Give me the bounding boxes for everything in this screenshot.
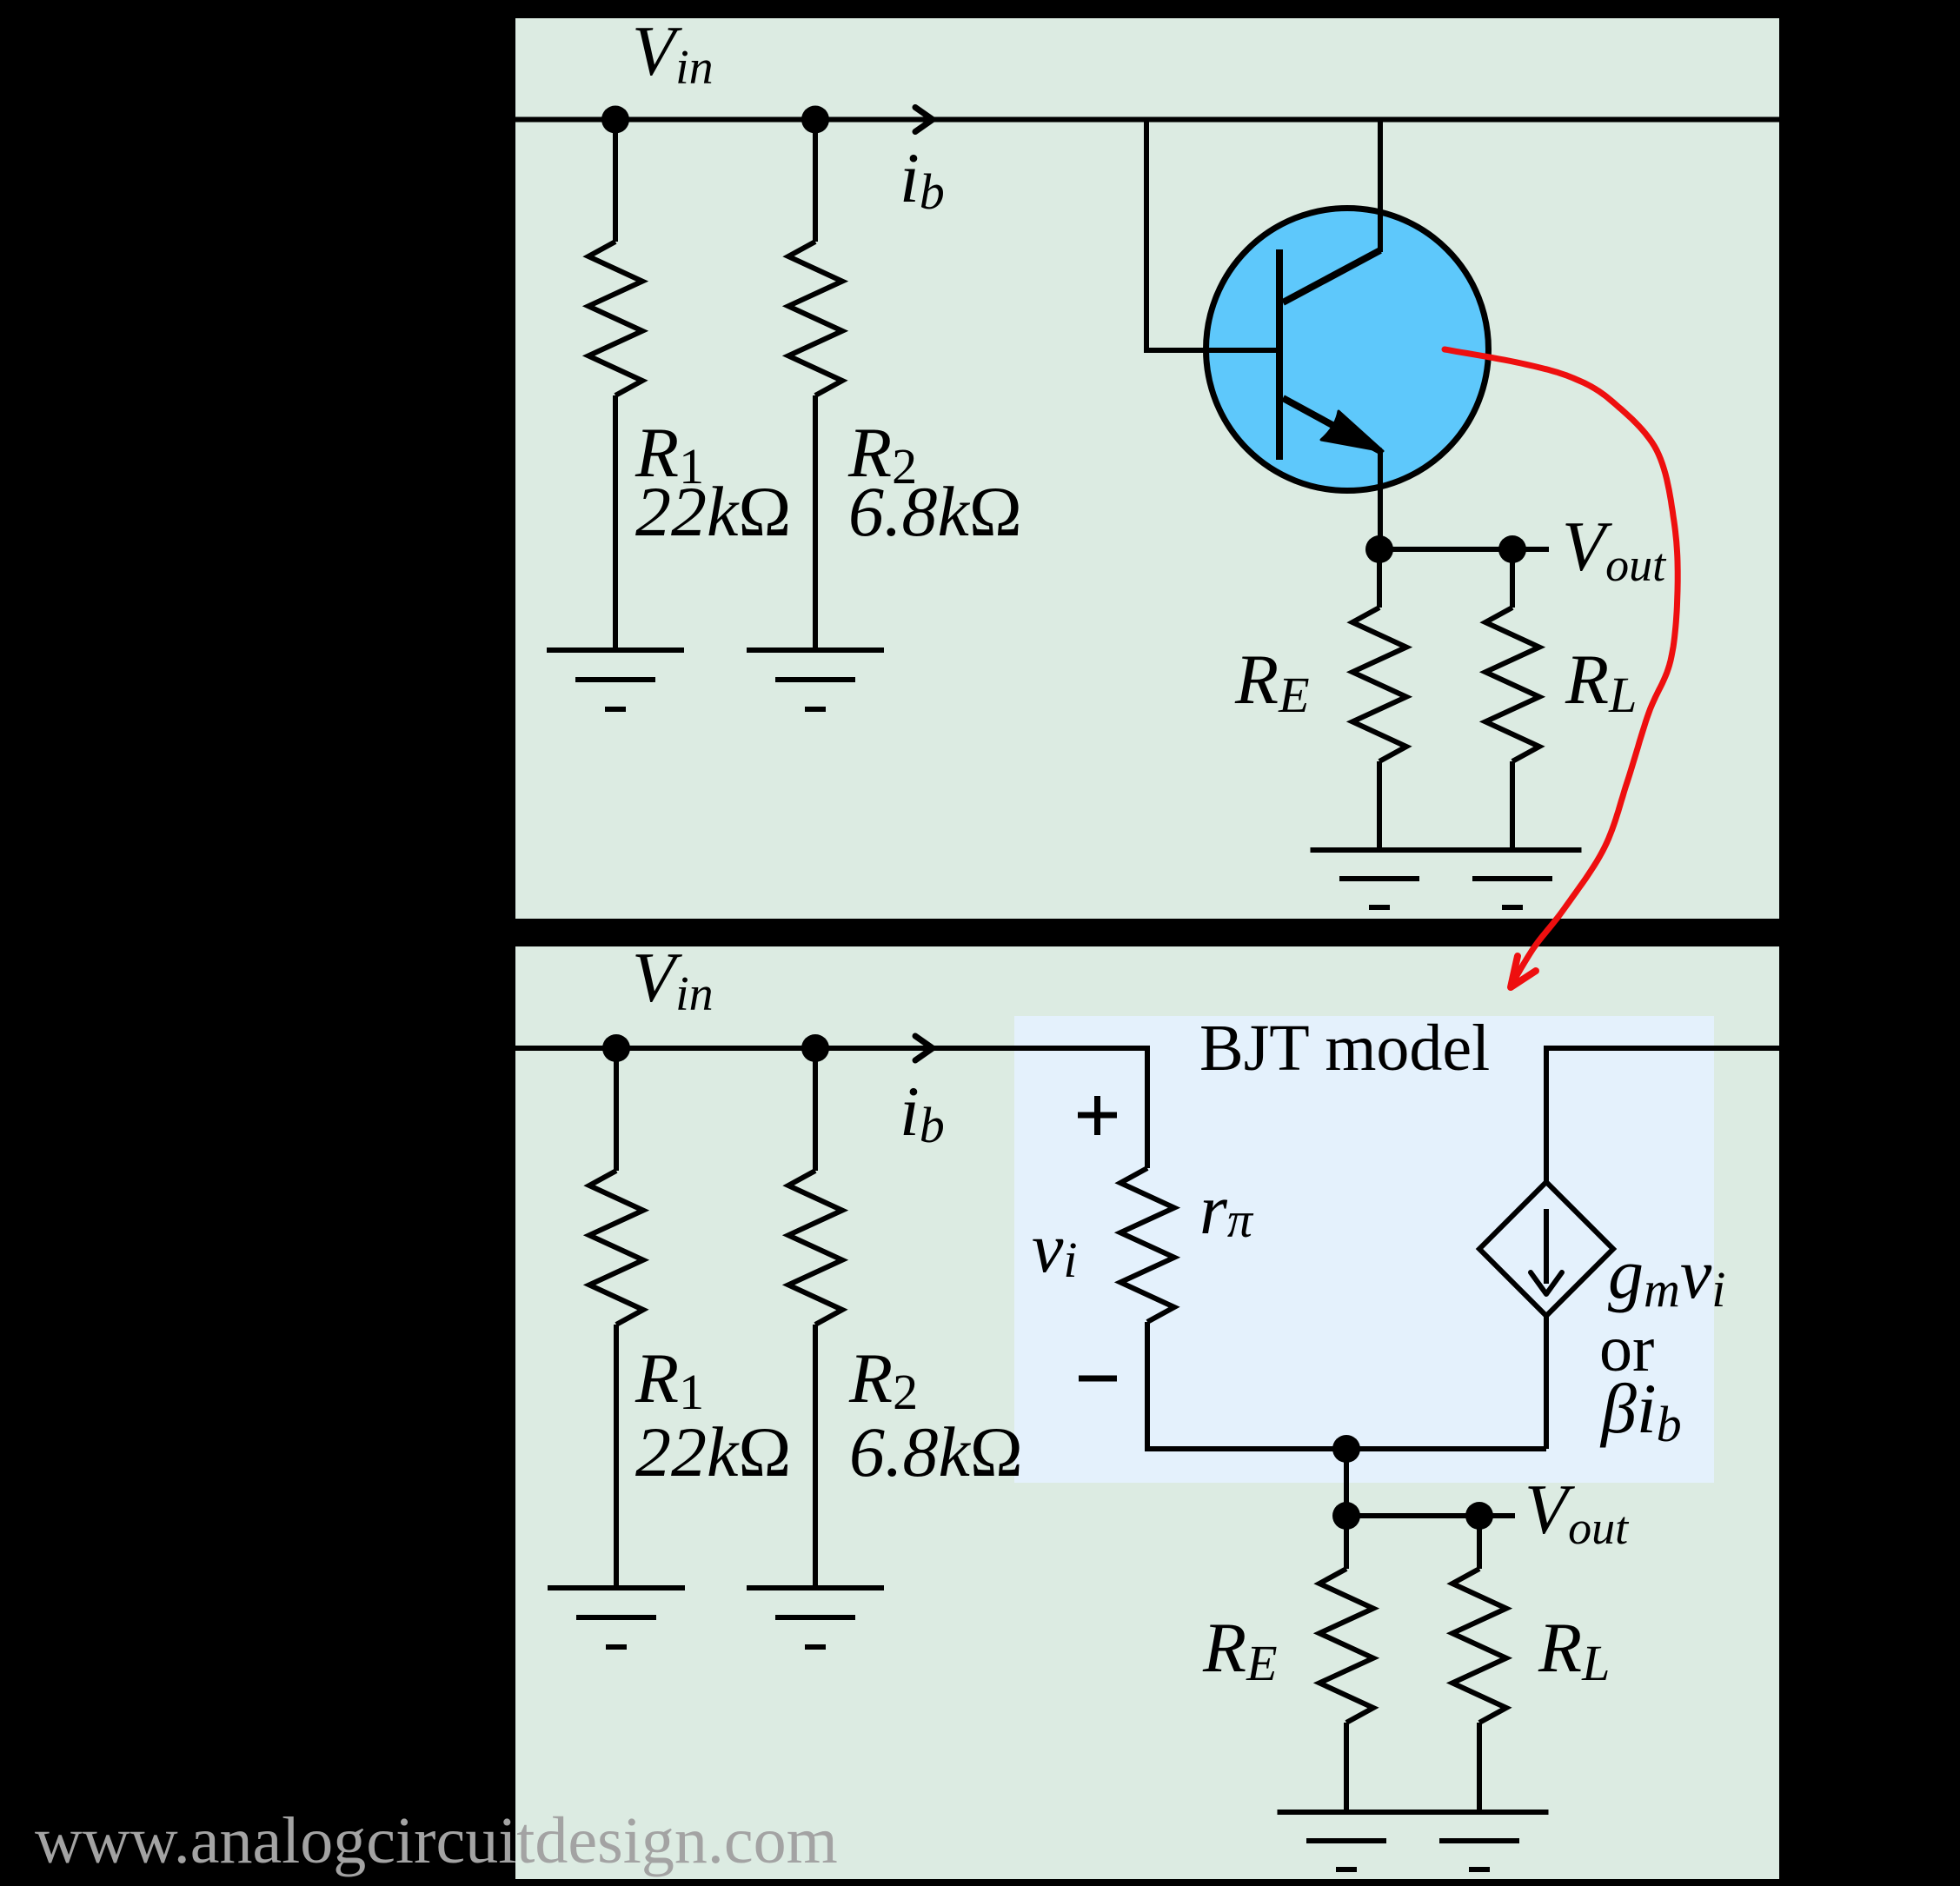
ground under R1 (top): [547, 647, 684, 653]
resistor RL (bottom): [1477, 1516, 1482, 1569]
wire: emitter node to RL (top): [1379, 547, 1512, 552]
junction emitter node (top): [1365, 535, 1393, 563]
ground under R1 (bottom): [548, 1585, 685, 1590]
svg-text:22kΩ: 22kΩ: [635, 472, 791, 551]
ground under R2 (top): [747, 647, 884, 653]
junction at R1 (bottom): [602, 1034, 630, 1062]
wire: stub to Vout (top): [1512, 547, 1549, 552]
BJT model box: [1014, 1016, 1714, 1483]
svg-text:6.8kΩ: 6.8kΩ: [848, 472, 1022, 551]
wire: bottom Vin rail into r_pi: [515, 1048, 1147, 1168]
wire: emitter down: [1378, 449, 1383, 549]
resistor r_pi: [1120, 1168, 1174, 1322]
wire: stub to Vout (bottom): [1479, 1513, 1515, 1518]
junction emitter node (bottom): [1332, 1502, 1360, 1530]
arrow: base current direction (bottom): [915, 1036, 933, 1060]
junction at R1 (top): [601, 106, 629, 134]
junction BJT model bottom (emitter): [1332, 1435, 1360, 1463]
svg-text:6.8kΩ: 6.8kΩ: [849, 1412, 1023, 1491]
resistor RE (top): [1377, 549, 1382, 608]
junction at R2 (bottom): [801, 1034, 829, 1062]
wire: base from rail down and right: [1144, 117, 1149, 351]
ground under R2 (bottom): [747, 1585, 884, 1590]
wire: top Vin rail: [515, 117, 1779, 123]
arrow: base current direction (top): [915, 108, 933, 132]
wire: bottom node of BJT model: [1145, 1446, 1546, 1451]
wire: to RL (bottom): [1346, 1513, 1479, 1518]
minus sign vi: [1079, 1376, 1117, 1382]
resistor R2 (top): [813, 120, 818, 242]
junction at RL (bottom): [1465, 1502, 1493, 1530]
top panel background: [515, 18, 1779, 919]
transistor emitter with arrow: [1283, 398, 1380, 451]
svg-text:BJT model: BJT model: [1199, 1012, 1490, 1085]
junction at RL (top): [1498, 535, 1526, 563]
red annotation arrow from transistor to BJT model: [1445, 349, 1678, 985]
bottom panel background: [515, 946, 1779, 1879]
resistor R2 (bottom): [813, 1048, 818, 1171]
junction at R2 (top): [801, 106, 829, 134]
resistor RE (bottom): [1344, 1516, 1349, 1569]
transistor Q1 body: [1206, 209, 1489, 491]
resistor R1 (top): [613, 120, 618, 242]
plus sign vi: [1078, 1112, 1117, 1119]
svg-text:22kΩ: 22kΩ: [635, 1412, 791, 1491]
dependent current source (diamond): [1479, 1182, 1613, 1316]
resistor RL (top): [1510, 549, 1515, 608]
shared ground under RE and RL (top): [1311, 847, 1582, 853]
wire: emitter node down (bottom): [1344, 1449, 1349, 1516]
transistor base bar: [1276, 249, 1283, 460]
shared ground under RE and RL (bottom): [1278, 1810, 1549, 1815]
transistor collector: [1378, 120, 1383, 253]
resistor R1 (bottom): [614, 1048, 619, 1171]
svg-text:www.analogcircuitdesign.com: www.analogcircuitdesign.com: [35, 1804, 838, 1877]
wire: collector rail right segment: [1546, 1048, 1779, 1185]
